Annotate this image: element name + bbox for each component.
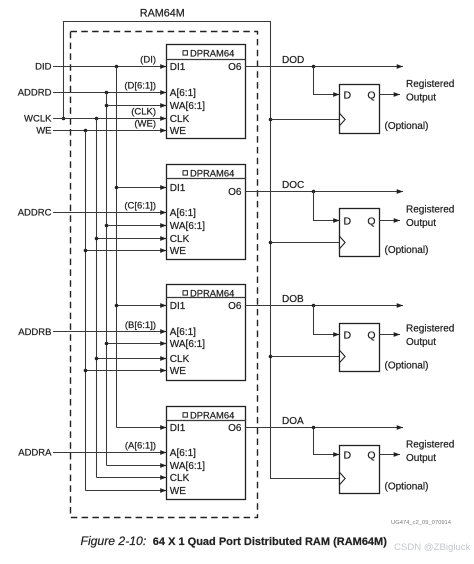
svg-text:O6: O6 [228, 301, 242, 312]
junction WCLK to CLK bus [95, 117, 99, 121]
svg-text:(WE): (WE) [134, 119, 156, 130]
wire DOA output from U_A O6 [246, 427, 404, 429]
svg-text:WA[6:1]: WA[6:1] [170, 221, 205, 232]
svg-text:CSDN @ZBigluck: CSDN @ZBigluck [394, 542, 471, 553]
wire DOB output from U_B O6 [246, 305, 404, 307]
bus WE vertical [85, 131, 87, 491]
wire CLK bus to CLK of U_B [97, 358, 167, 360]
svg-text:DI1: DI1 [170, 183, 186, 194]
wire DOA branch to FFA D input [314, 428, 340, 455]
svg-text:Registered: Registered [406, 205, 454, 216]
svg-text:Q: Q [367, 215, 375, 227]
svg-text:RAM64M: RAM64M [140, 7, 185, 19]
svg-text:DI1: DI1 [170, 301, 186, 312]
wire WE bus to WE of U_A [86, 490, 167, 492]
wire DOD branch to FFD D input [314, 67, 340, 95]
svg-text:(Optional): (Optional) [385, 245, 429, 256]
wire CLK bus to CLK of U_A [97, 477, 167, 479]
junction WE to WE bus [84, 129, 88, 133]
svg-text:DOB: DOB [282, 294, 304, 305]
svg-text:DI1: DI1 [170, 62, 186, 73]
svg-text:Registered: Registered [406, 324, 454, 335]
svg-text:(Optional): (Optional) [385, 121, 429, 132]
wire FFC Q output [380, 220, 401, 222]
wire ADDRC to A[6:1] of U_C [53, 212, 167, 214]
wire WCLK to CLK of U_D [53, 118, 167, 120]
svg-text:O6: O6 [228, 62, 242, 73]
wire WA bus to WA[6:1] of U_C [107, 225, 167, 227]
svg-text:WE: WE [170, 486, 186, 497]
svg-text:D: D [344, 215, 352, 227]
wire clock to FFB [271, 356, 340, 358]
svg-text:Registered: Registered [406, 79, 454, 90]
junction DOC to register branch [312, 190, 316, 194]
svg-text:Q: Q [367, 329, 375, 341]
wire CLK bus to CLK of U_C [97, 238, 167, 240]
svg-text:DI1: DI1 [170, 423, 186, 434]
wire DOD output from U_D O6 [246, 66, 404, 68]
svg-text:UG474_c2_09_070914: UG474_c2_09_070914 [391, 520, 452, 526]
wire FFD Q output [380, 94, 401, 96]
svg-text:64 X 1 Quad Port Distributed R: 64 X 1 Quad Port Distributed RAM (RAM64M… [153, 536, 387, 548]
flip-flop FFD (optional output register) [340, 85, 380, 134]
svg-text:(DI): (DI) [140, 55, 156, 66]
svg-text:WE: WE [170, 246, 186, 257]
svg-text:(CLK): (CLK) [131, 107, 156, 118]
svg-text:D: D [344, 89, 352, 101]
svg-text:(C[6:1]): (C[6:1]) [124, 201, 156, 212]
wire DID to DI1 of U_D [53, 66, 167, 68]
svg-text:O6: O6 [228, 187, 242, 198]
junction DOB to register branch [312, 304, 316, 308]
svg-text:ADDRA: ADDRA [18, 448, 52, 459]
junction ADDRD to WA bus [105, 91, 109, 95]
wire clock to FFD [271, 119, 340, 121]
svg-text:CLK: CLK [170, 473, 190, 484]
svg-text:D: D [344, 449, 352, 461]
svg-text:(B[6:1]): (B[6:1]) [125, 320, 156, 331]
svg-text:Q: Q [367, 89, 375, 101]
svg-text:WA[6:1]: WA[6:1] [170, 101, 205, 112]
svg-text:DOC: DOC [282, 180, 304, 191]
svg-text:A[6:1]: A[6:1] [170, 88, 196, 99]
flip-flop FFC (optional output register) [340, 209, 380, 257]
svg-text:Output: Output [406, 218, 436, 229]
wire DOC branch to FFC D input [314, 192, 340, 221]
wire WA bus to WA[6:1] of U_D [107, 105, 167, 107]
svg-text:(Optional): (Optional) [385, 361, 429, 372]
svg-text:CLK: CLK [170, 234, 190, 245]
junction trunk to FFC clock [269, 241, 273, 245]
junction DOD to register branch [312, 65, 316, 69]
svg-text:WE: WE [36, 126, 51, 137]
wire ADDRB to A[6:1] of U_B [53, 331, 167, 333]
wire WE bus to WE of U_B [86, 370, 167, 372]
junction trunk to FFD clock [269, 118, 273, 122]
svg-text:Output: Output [406, 93, 436, 104]
wire WE bus to WE of U_C [86, 250, 167, 252]
wire clock to FFC [271, 242, 340, 244]
svg-text:WE: WE [170, 366, 186, 377]
wire FFA Q output [380, 454, 401, 456]
bus ADDRD (write address) vertical [106, 93, 108, 466]
svg-text:WE: WE [170, 126, 186, 137]
wire FFB Q output [380, 334, 401, 336]
DPRAM64 primitive U_D [167, 45, 246, 139]
svg-text:WA[6:1]: WA[6:1] [170, 339, 205, 350]
svg-text:Q: Q [367, 449, 375, 461]
svg-text:CLK: CLK [170, 354, 190, 365]
svg-text:Output: Output [406, 337, 436, 348]
svg-text:CLK: CLK [170, 114, 190, 125]
wire DOB branch to FFB D input [314, 306, 340, 335]
svg-text:A[6:1]: A[6:1] [170, 208, 196, 219]
wire DOC output from U_C O6 [246, 191, 404, 193]
junction WCLK trunk to WCLK input [62, 117, 66, 121]
svg-text:DOD: DOD [282, 55, 304, 66]
caption Figure 2-10 [81, 534, 388, 548]
svg-text:Figure 2-10:: Figure 2-10: [81, 534, 147, 548]
wire DI bus to DI1 of U_C [117, 187, 167, 189]
svg-text:DPRAM64: DPRAM64 [190, 409, 234, 420]
wire WCLK trunk (up, across top, down right side to register clocks) [64, 22, 340, 479]
DPRAM64 primitive U_B [167, 285, 246, 381]
svg-text:O6: O6 [228, 423, 242, 434]
DPRAM64 primitive U_A [167, 407, 246, 500]
svg-text:DPRAM64: DPRAM64 [190, 287, 234, 298]
wire DI bus to DI1 of U_A [117, 427, 167, 429]
svg-text:DPRAM64: DPRAM64 [190, 167, 234, 178]
bus DID vertical [116, 67, 118, 428]
svg-text:DPRAM64: DPRAM64 [190, 47, 234, 58]
bus WCLK vertical [96, 119, 98, 478]
DPRAM64 primitive U_C [167, 165, 246, 260]
svg-text:ADDRC: ADDRC [18, 208, 52, 219]
svg-text:A[6:1]: A[6:1] [170, 327, 196, 338]
svg-text:(A[6:1]): (A[6:1]) [125, 441, 156, 452]
svg-text:ADDRD: ADDRD [18, 88, 52, 99]
wire WA bus to WA[6:1] of U_A [107, 465, 167, 467]
wire WE to WE of U_D [53, 130, 167, 132]
svg-text:D: D [344, 329, 352, 341]
svg-text:WCLK: WCLK [24, 114, 52, 125]
wire ADDRA to A[6:1] of U_A [53, 452, 167, 454]
junction trunk to FFB clock [269, 355, 273, 359]
svg-text:Registered: Registered [406, 440, 454, 451]
flip-flop FFA (optional output register) [340, 446, 380, 494]
svg-text:WA[6:1]: WA[6:1] [170, 461, 205, 472]
svg-text:ADDRB: ADDRB [18, 327, 51, 338]
flip-flop FFB (optional output register) [340, 324, 380, 372]
svg-text:(Optional): (Optional) [385, 482, 429, 493]
svg-text:(D[6:1]): (D[6:1]) [124, 81, 156, 92]
wire DI bus to DI1 of U_B [117, 305, 167, 307]
wire WA bus to WA[6:1] of U_B [107, 343, 167, 345]
dashed RAM64M boundary box [71, 32, 258, 518]
junction DID to DI bus [115, 65, 119, 69]
junction DOA to register branch [312, 426, 316, 430]
svg-text:DOA: DOA [282, 416, 304, 427]
svg-text:A[6:1]: A[6:1] [170, 448, 196, 459]
wire ADDRD to A[6:1] of U_D [53, 92, 167, 94]
svg-text:Output: Output [406, 453, 436, 464]
svg-text:DID: DID [35, 62, 52, 73]
